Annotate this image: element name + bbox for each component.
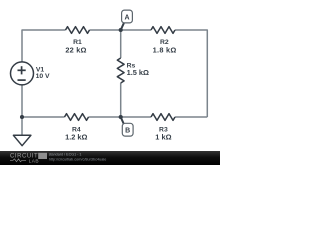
svg-text:http://circuitlab.com/c/8ur3bc: http://circuitlab.com/c/8ur3bc4uale xyxy=(49,157,107,161)
svg-text:standard / ECG1 - 1: standard / ECG1 - 1 xyxy=(49,153,82,157)
voltage source V1 xyxy=(11,62,34,85)
junction at node A xyxy=(119,28,123,32)
wire ground stub xyxy=(21,117,23,135)
junction at ground/V1 bottom xyxy=(20,115,24,119)
resistor R3 xyxy=(151,114,175,121)
svg-text:1.8 kΩ: 1.8 kΩ xyxy=(153,45,177,54)
resistor R2 xyxy=(151,27,175,34)
ground xyxy=(13,135,31,145)
wire top-left corner from V1 top to R1 left xyxy=(22,30,66,62)
node A xyxy=(121,10,133,30)
svg-text:B: B xyxy=(125,127,130,134)
resistor Rs xyxy=(117,58,124,83)
svg-text:22 kΩ: 22 kΩ xyxy=(65,45,86,54)
wire R1 right to R2 left through node A xyxy=(90,29,152,31)
svg-text:10 V: 10 V xyxy=(36,73,50,80)
wire V1 bottom to bottom rail xyxy=(21,85,23,117)
resistor R4 xyxy=(65,114,89,121)
svg-text:A: A xyxy=(124,15,129,22)
svg-text:1 kΩ: 1 kΩ xyxy=(155,132,171,141)
wire bottom rail right: R3 right to right branch xyxy=(175,116,207,118)
resistor R1 xyxy=(66,27,90,34)
footer logo CircuitLab xyxy=(10,153,47,165)
wire R2 right to top-right corner and down right branch xyxy=(175,30,207,117)
svg-text:LAB: LAB xyxy=(29,158,39,164)
wire bottom rail left: ground junction to R4 left xyxy=(22,116,65,118)
node B xyxy=(121,117,133,136)
wire middle branch bottom: Rs to node B xyxy=(120,83,122,117)
wire middle branch top: node A to Rs xyxy=(120,30,122,58)
svg-text:1.5 kΩ: 1.5 kΩ xyxy=(127,68,149,77)
wire bottom rail middle: R4 right to R3 left through node B xyxy=(89,116,152,118)
footer bar xyxy=(0,151,220,165)
junction at node B xyxy=(119,115,123,119)
svg-text:1.2 kΩ: 1.2 kΩ xyxy=(65,132,87,141)
